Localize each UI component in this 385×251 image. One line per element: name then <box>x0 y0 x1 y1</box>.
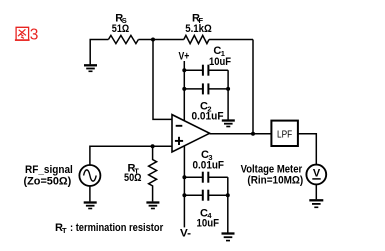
resistor RS <box>108 35 138 43</box>
svg-text:0.01uF: 0.01uF <box>193 160 225 172</box>
wire: source up and right to + input <box>90 146 172 165</box>
ground (C3 C4) <box>222 234 235 241</box>
caption RT termination resistor <box>55 222 164 235</box>
svg-text:10uF: 10uF <box>209 56 231 68</box>
wire: feedback vertical down to output node <box>252 40 254 134</box>
svg-text:10uF: 10uF <box>197 217 220 229</box>
junction dot V- rail / C4 <box>182 193 186 197</box>
wire: source bottom to ground <box>89 186 91 201</box>
svg-text:0.01uF: 0.01uF <box>192 111 224 123</box>
svg-text:: termination resistor: : termination resistor <box>70 222 164 234</box>
svg-text:V: V <box>313 168 321 180</box>
svg-text:(Rin=10MΩ): (Rin=10MΩ) <box>247 174 303 186</box>
wire: RS right to node A <box>138 39 153 41</box>
wire: LPF to meter <box>298 134 316 165</box>
junction dot right rail / C4 <box>226 193 230 197</box>
op-amp U1 <box>172 115 210 152</box>
label C1 <box>213 45 225 58</box>
wire: C3/C4 right rail down <box>227 177 229 232</box>
resistor RF <box>184 35 209 43</box>
junction dot right rail / C2 <box>226 87 230 91</box>
label RF <box>192 12 204 25</box>
junction dot output/feedback <box>251 132 255 136</box>
ground (left of RS) <box>84 65 97 71</box>
label C4 <box>200 207 212 220</box>
wire: V- rail <box>183 146 185 228</box>
junction dot V- rail / C3 <box>182 175 186 179</box>
wire: meter bottom to ground <box>315 184 317 199</box>
junction dot V+ rail / C2 <box>182 87 186 91</box>
label C2 <box>200 101 212 114</box>
voltage meter V <box>306 165 326 185</box>
ground (source) <box>84 203 97 209</box>
svg-text:(Zo=50Ω): (Zo=50Ω) <box>24 176 72 188</box>
junction dot + input / RT <box>151 144 155 148</box>
svg-text:51Ω: 51Ω <box>112 23 130 35</box>
svg-text:V-: V- <box>180 227 191 239</box>
svg-text:RF_signal: RF_signal <box>25 164 73 176</box>
wire: node A to RF left lead <box>153 39 184 41</box>
LPF block <box>271 121 298 146</box>
label RT <box>128 163 140 176</box>
wire: node A down to inverting input <box>153 40 172 120</box>
svg-text:3: 3 <box>30 27 39 44</box>
label C3 <box>201 149 213 162</box>
junction dot V+ rail / C1 <box>182 68 186 72</box>
resistor RT <box>149 146 157 201</box>
capacitor C4 <box>184 190 227 201</box>
wire: V+ rail <box>183 61 185 121</box>
svg-text:T: T <box>62 226 67 235</box>
ground (meter) <box>309 200 323 207</box>
svg-text:50Ω: 50Ω <box>124 172 142 184</box>
label RS <box>115 12 127 25</box>
figure caption 图 glyph <box>15 27 30 40</box>
ground (RT) <box>146 203 159 209</box>
capacitor C3 <box>184 172 227 183</box>
wire: C1/C2 right rail down <box>227 70 229 119</box>
capacitor C1 <box>184 65 228 76</box>
wire: RS left lead + corner down to ground <box>90 40 108 65</box>
capacitor C2 <box>184 83 228 94</box>
ground (C1 C2) <box>222 121 235 127</box>
svg-text:LPF: LPF <box>277 128 292 140</box>
wire: RF right lead to top-right corner <box>209 39 253 41</box>
svg-text:V+: V+ <box>179 51 190 63</box>
node A junction dot <box>151 38 155 42</box>
wire: op-amp output <box>210 133 272 135</box>
source RF_signal <box>79 165 100 186</box>
svg-text:5.1kΩ: 5.1kΩ <box>185 23 212 35</box>
